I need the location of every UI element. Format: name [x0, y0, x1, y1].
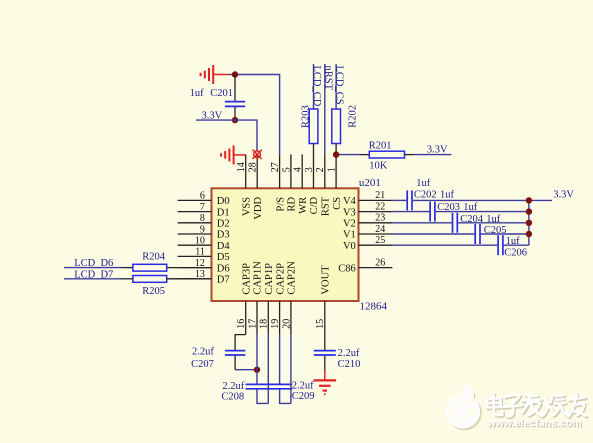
svg-text:VOUT: VOUT [321, 265, 332, 295]
pin 26 stub (right) [359, 267, 393, 269]
svg-text:CAP3P: CAP3P [241, 263, 252, 295]
svg-text:12864: 12864 [360, 301, 388, 313]
wire C207 to pin17 net [235, 369, 257, 371]
svg-text:R204: R204 [142, 252, 166, 263]
wire pin25 to C206 [392, 244, 497, 246]
wire pin19 down to C209 [279, 335, 281, 384]
wire C204 to 3.3V bus [458, 222, 529, 224]
R204 right lead to pin 12 [167, 267, 212, 269]
pin 6 stub (left) [178, 199, 212, 201]
resistor R204 [133, 264, 167, 271]
svg-text:C86: C86 [338, 263, 356, 274]
svg-text:10: 10 [195, 236, 205, 247]
pin 24 stub (right) [359, 233, 393, 235]
resistor R202 [332, 109, 341, 144]
pin 25 stub (right) [359, 244, 393, 246]
C210 bottom lead [324, 356, 326, 371]
pin 16 stub (bottom) [245, 301, 247, 335]
svg-text:R205: R205 [142, 286, 165, 297]
svg-text:C210: C210 [338, 359, 361, 370]
svg-text:D2: D2 [217, 219, 230, 230]
svg-text:C203: C203 [437, 202, 460, 213]
wire C202 to 3.3V bus [413, 199, 552, 201]
resistor R205 [133, 276, 167, 283]
C208 bottom lead to pin18 net [257, 389, 268, 403]
junction bus row 23 [526, 220, 532, 226]
pin 12 stub (left) [178, 267, 212, 269]
pin 15 stub (bottom) [324, 301, 326, 335]
svg-text:CAP1P: CAP1P [264, 263, 275, 295]
svg-text:28: 28 [248, 162, 259, 172]
wire node to pin 27 P/S [235, 75, 280, 155]
svg-text:2: 2 [315, 167, 326, 172]
svg-text:CAP2P: CAP2P [275, 263, 286, 295]
svg-text:1uf: 1uf [463, 202, 478, 213]
svg-text:23: 23 [375, 213, 385, 224]
svg-text:C209: C209 [292, 391, 315, 402]
svg-text:2.2uf: 2.2uf [338, 348, 360, 359]
wire C205 to 3.3V bus [481, 233, 529, 235]
svg-text:V0: V0 [343, 241, 356, 252]
R201 left lead [360, 154, 369, 156]
svg-text:WR: WR [298, 197, 309, 214]
capacitor C206 plates [497, 235, 499, 255]
wire R202 to pin 1 CS [335, 144, 337, 155]
wire net LCD_CS [335, 64, 337, 109]
svg-text:5: 5 [281, 167, 292, 172]
wire pin23 to C204 [392, 222, 451, 224]
no-ERC marker at pin 28 (red circle-X) [254, 151, 261, 158]
svg-text:22: 22 [375, 201, 385, 212]
wire C206 to 3.3V bus [504, 244, 529, 246]
IC u201 12864 controller body [212, 188, 359, 301]
svg-text:u201: u201 [359, 177, 381, 189]
wire R201 to 3.3V [414, 154, 452, 156]
svg-text:CAP1N: CAP1N [253, 261, 264, 295]
C207 bottom lead [234, 356, 236, 370]
svg-text:RD: RD [287, 196, 298, 211]
svg-text:V3: V3 [343, 207, 356, 218]
capacitor C201 top lead [234, 75, 236, 102]
R205 right lead to pin 13 [167, 278, 212, 280]
wire net LCD_CD [313, 64, 315, 109]
svg-text:11: 11 [195, 247, 205, 258]
svg-text:18: 18 [259, 319, 270, 329]
resistor R203 [309, 109, 318, 144]
pin 22 stub (right) [359, 211, 393, 213]
svg-text:R202: R202 [347, 105, 358, 128]
svg-text:D0: D0 [217, 196, 230, 207]
pin 9 stub (left) [178, 233, 212, 235]
pin 10 stub (left) [178, 244, 212, 246]
svg-text:1: 1 [327, 167, 338, 172]
svg-text:C204: C204 [460, 214, 484, 225]
pin 13 stub (left) [178, 278, 212, 280]
junction at C201 top [232, 71, 238, 77]
svg-text:VDD: VDD [253, 196, 264, 219]
svg-text:CAP2N: CAP2N [287, 261, 298, 295]
pin 2 stub (top) [324, 154, 326, 188]
wire pin24 to C205 [392, 233, 474, 235]
svg-text:1uf: 1uf [190, 88, 205, 99]
pin 17 stub (bottom) [256, 301, 258, 335]
svg-text:C207: C207 [191, 359, 214, 370]
capacitor C201 plates [225, 101, 245, 103]
wire R203 to pin 3 C/D [313, 144, 315, 155]
R201 right lead [405, 154, 414, 156]
svg-text:1uf: 1uf [440, 190, 455, 201]
R205 left lead [121, 278, 133, 280]
svg-text:25: 25 [375, 235, 385, 246]
capacitor C201 bottom lead [234, 107, 236, 120]
pin 20 stub (bottom) [290, 301, 292, 335]
wire gnd to node [229, 74, 235, 76]
pin 19 stub (bottom) [279, 301, 281, 335]
svg-text:1uf: 1uf [486, 214, 501, 225]
svg-text:C208: C208 [221, 391, 244, 402]
power ground at pin 14 VSS (red) [233, 145, 235, 164]
wire pin16 to C207 [235, 335, 246, 350]
wire net nRST to pin 2 RST [324, 64, 326, 154]
wire 3.3V to pin 28 VDD [196, 120, 257, 151]
earth ground below C210 (red) [324, 371, 326, 381]
junction bus row 22 [526, 208, 532, 214]
svg-text:D5: D5 [217, 252, 230, 263]
svg-text:2.2uf: 2.2uf [222, 381, 244, 392]
pin 4 stub (top) [301, 154, 303, 188]
wire LCD_D7 [64, 278, 121, 280]
svg-text:V1: V1 [343, 230, 356, 241]
svg-text:19: 19 [270, 319, 281, 329]
svg-text:16: 16 [236, 319, 247, 329]
svg-text:VSS: VSS [241, 197, 252, 216]
svg-text:2.2uf: 2.2uf [192, 346, 214, 357]
svg-text:17: 17 [247, 319, 258, 329]
svg-text:R201: R201 [369, 140, 392, 151]
svg-text:P/S: P/S [275, 197, 286, 212]
svg-text:27: 27 [270, 162, 281, 172]
svg-text:C205: C205 [484, 225, 507, 236]
pin 1 stub (top) [335, 154, 337, 188]
svg-text:24: 24 [375, 224, 385, 235]
pin 27 stub (top) [279, 154, 281, 188]
junction at 3.3V rail [232, 117, 238, 123]
svg-text:3: 3 [304, 167, 315, 172]
pin 11 stub (left) [178, 255, 212, 257]
svg-text:26: 26 [375, 257, 385, 268]
wire pin22 to C203 [392, 211, 429, 213]
wire pin15 to C210 [324, 335, 326, 350]
svg-text:8: 8 [200, 213, 205, 224]
svg-text:10K: 10K [369, 160, 388, 171]
wire LCD_D6 [64, 267, 121, 269]
wire pin18 down [267, 335, 269, 404]
capacitor C202 plates [406, 190, 408, 210]
C209 bottom lead to pin20 net [280, 389, 291, 403]
junction pin1/R202/R201 [333, 151, 339, 157]
svg-text:6: 6 [200, 191, 205, 202]
svg-text:www.elecfans.com: www.elecfans.com [487, 418, 582, 429]
R204 left lead [121, 267, 133, 269]
svg-text:20: 20 [281, 319, 292, 329]
watermark chinese calligraphy 电子发烧友 [487, 393, 586, 416]
svg-text:V4: V4 [343, 196, 357, 207]
watermark logo leaf [447, 396, 482, 431]
wire pin20 down [290, 335, 292, 404]
svg-text:CS: CS [332, 197, 343, 210]
resistor R201 [369, 151, 404, 158]
capacitor C205 plates [474, 224, 476, 244]
junction bus row 24 [526, 231, 532, 237]
svg-text:D6: D6 [217, 263, 230, 274]
svg-text:LCD_CD: LCD_CD [311, 66, 322, 107]
wire pin1 node to R201 [336, 154, 360, 156]
capacitor C203 plates [429, 202, 431, 222]
pin 14 stub (top) [245, 154, 247, 188]
capacitor C208 plates [246, 383, 270, 385]
pin 21 stub (right) [359, 199, 393, 201]
svg-text:21: 21 [375, 190, 385, 201]
svg-text:14: 14 [236, 162, 247, 172]
svg-text:C201: C201 [210, 88, 233, 99]
svg-text:C/D: C/D [309, 196, 320, 214]
junction C207/pin17 [254, 367, 260, 373]
capacitor C204 plates [452, 213, 454, 233]
svg-text:nRST: nRST [322, 66, 333, 91]
pin 28 stub (top) [256, 154, 258, 188]
pin 3 stub (top) [313, 154, 315, 188]
svg-text:4: 4 [293, 167, 304, 172]
pin 18 stub (bottom) [267, 301, 269, 335]
svg-text:V2: V2 [343, 219, 356, 230]
pin 23 stub (right) [359, 222, 393, 224]
svg-text:D7: D7 [217, 275, 230, 286]
svg-text:3.3V: 3.3V [553, 190, 574, 201]
pin 7 stub (left) [178, 211, 212, 213]
wire pin17 down to C208 [256, 335, 258, 384]
svg-text:7: 7 [200, 202, 205, 213]
watermark chinese calligraphy (shadow) [488, 395, 587, 418]
svg-text:LCD_CS: LCD_CS [334, 66, 345, 105]
capacitor C209 plates [268, 383, 292, 385]
svg-text:1uf: 1uf [416, 178, 431, 189]
svg-text:R203: R203 [300, 105, 311, 128]
svg-text:2.2uf: 2.2uf [292, 380, 314, 391]
svg-text:9: 9 [200, 224, 205, 235]
svg-text:D4: D4 [217, 241, 231, 252]
pin 5 stub (top) [290, 154, 292, 188]
junction bus row 21 [526, 197, 532, 203]
wire pin21 to C202 [392, 199, 406, 201]
svg-text:3.3V: 3.3V [427, 144, 448, 155]
svg-text:D3: D3 [217, 230, 230, 241]
svg-text:D1: D1 [217, 207, 230, 218]
svg-text:15: 15 [315, 319, 326, 329]
wire C203 to 3.3V bus [436, 211, 529, 213]
power ground GND (top-left, red) [212, 65, 214, 84]
3.3V bus vertical [528, 200, 530, 245]
svg-text:C206: C206 [504, 248, 527, 259]
svg-text:C202: C202 [414, 190, 437, 201]
pin 8 stub (left) [178, 222, 212, 224]
svg-text:RST: RST [321, 196, 332, 216]
svg-text:1uf: 1uf [506, 236, 520, 247]
